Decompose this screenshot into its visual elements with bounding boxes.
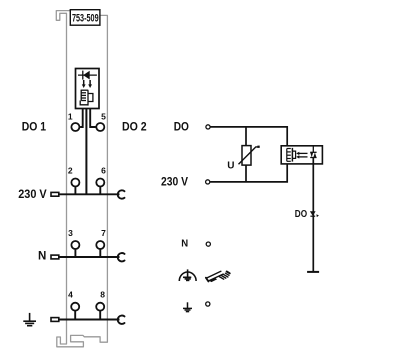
- svg-text:2: 2: [68, 165, 73, 175]
- DO wire top: [210, 127, 287, 149]
- svg-text:6: 6: [101, 165, 106, 175]
- opto feedback arrows: [296, 152, 307, 159]
- 230V wire bottom: [210, 161, 287, 182]
- functional earth symbol: [179, 269, 196, 281]
- terminal 4: [68, 289, 79, 319]
- PE arrow symbol: [183, 302, 192, 311]
- DO status LED: [310, 211, 319, 217]
- N field terminal: [206, 242, 210, 246]
- PE terminal marker: [51, 318, 59, 322]
- LED diode D1 inside box: [78, 71, 97, 80]
- svg-text:DO: DO: [174, 121, 189, 133]
- core bar: [291, 148, 293, 162]
- terminal 5: [96, 111, 106, 131]
- optocoupler arrows down: [82, 80, 92, 88]
- power jumper contact 230V: [118, 190, 125, 198]
- DO field terminal: [206, 125, 210, 129]
- terminal 7: [96, 228, 106, 257]
- output stage symbol inside box: [80, 90, 93, 105]
- svg-text:753-509: 753-509: [72, 13, 99, 25]
- terminal 8: [96, 289, 105, 319]
- svg-text:N: N: [38, 251, 46, 263]
- svg-text:3: 3: [68, 228, 73, 238]
- power jumper contact PE: [118, 316, 125, 324]
- output bracket: [292, 151, 295, 158]
- 230V field terminal: [206, 180, 210, 184]
- power jumper contact N: [118, 253, 125, 261]
- ground symbol left: [23, 313, 36, 326]
- svg-text:DO 2: DO 2: [122, 122, 147, 134]
- 230V rail wire: [60, 193, 120, 195]
- terminal 6: [96, 165, 106, 194]
- svg-text:DO: DO: [295, 209, 307, 220]
- varistor footnote mark: [257, 146, 259, 148]
- DIN rail symbol: [206, 271, 230, 282]
- svg-text:5: 5: [101, 111, 106, 121]
- box lead left to terminal 1: [80, 109, 83, 128]
- module outline: [56, 11, 107, 347]
- varistor branch wire: [245, 127, 247, 182]
- terminal 2: [68, 165, 79, 194]
- label box 753-509: [70, 10, 100, 26]
- solid-state switch box: [281, 146, 322, 164]
- svg-text:7: 7: [101, 228, 106, 238]
- 230V terminal marker: [51, 192, 59, 196]
- N terminal marker: [51, 255, 59, 259]
- box lead right to terminal 5: [90, 109, 96, 128]
- terminal 3: [68, 228, 79, 257]
- svg-text:230 V: 230 V: [161, 177, 188, 189]
- svg-text:8: 8: [100, 289, 105, 299]
- electronics box U1: [76, 69, 100, 109]
- output wire down: [312, 158, 314, 272]
- PE rail wire: [59, 319, 119, 321]
- svg-text:230 V: 230 V: [18, 189, 47, 201]
- triac: [310, 146, 316, 158]
- svg-text:1: 1: [68, 111, 73, 121]
- svg-text:DO 1: DO 1: [22, 122, 47, 134]
- input comb: [287, 149, 291, 162]
- svg-text:U: U: [227, 160, 234, 171]
- terminal 1: [68, 111, 80, 131]
- varistor R1 body: [242, 146, 251, 166]
- PE field terminal: [206, 302, 210, 306]
- svg-text:N: N: [181, 238, 188, 249]
- termination bar: [307, 271, 319, 273]
- svg-text:4: 4: [68, 289, 73, 299]
- center wire from box to 230V rail: [85, 109, 87, 195]
- N rail wire: [59, 256, 119, 258]
- varistor diagonal: [239, 147, 259, 164]
